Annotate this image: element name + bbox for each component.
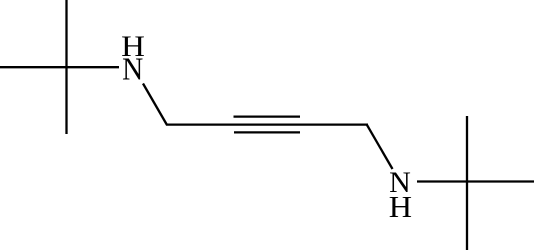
- svg-text:H: H: [389, 189, 412, 224]
- svg-text:N: N: [122, 50, 143, 86]
